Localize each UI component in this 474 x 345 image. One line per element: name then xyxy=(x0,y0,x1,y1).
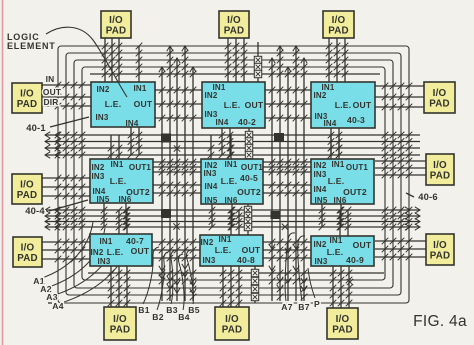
leader B2 xyxy=(157,252,168,310)
svg-text:L.E.: L.E. xyxy=(215,245,232,255)
svg-text:L.E.: L.E. xyxy=(327,247,344,257)
svg-text:OUT1: OUT1 xyxy=(129,163,151,172)
svg-text:OUT: OUT xyxy=(353,100,372,110)
svg-text:OUT1: OUT1 xyxy=(346,163,368,172)
svg-text:L.E.: L.E. xyxy=(221,176,238,186)
interconnect ticks channel2 verticals xyxy=(101,207,352,231)
wire stems left L3 xyxy=(42,242,91,259)
label 40-1 xyxy=(26,122,46,133)
svg-text:IN6: IN6 xyxy=(118,195,131,204)
io pad top 2 xyxy=(219,11,249,38)
svg-text:40-9: 40-9 xyxy=(346,255,364,265)
label FIG. 4a xyxy=(413,313,467,330)
wire stems T2 xyxy=(228,38,244,82)
wire horizontal channel 1 line 2 xyxy=(45,138,420,144)
wire stubs block2 bottom xyxy=(222,128,230,155)
wire stems right R1 xyxy=(375,86,426,107)
svg-text:IN5: IN5 xyxy=(314,196,327,205)
io pad right 2 xyxy=(426,154,454,185)
wire stubs block8 top xyxy=(231,210,239,235)
label A4 xyxy=(52,301,63,311)
wire vertical channel B3 xyxy=(285,67,291,301)
switch boxes ch1 column xyxy=(245,131,252,158)
svg-text:IN: IN xyxy=(46,74,55,84)
wire row2 pins gap1 xyxy=(153,162,201,193)
wire horizontal channel 2 line 4 xyxy=(45,224,420,230)
wire top channel inner xyxy=(90,73,380,75)
io pad right 1 xyxy=(424,82,455,113)
wire row2 pins gap2 xyxy=(263,162,311,193)
interconnect ticks right channel xyxy=(382,83,413,261)
label 40-6 xyxy=(418,191,438,202)
label DIR xyxy=(43,97,58,107)
svg-text:L.E.: L.E. xyxy=(224,100,241,110)
wire stubs block6 bottom xyxy=(322,204,341,227)
svg-text:I/O: I/O xyxy=(336,314,350,325)
svg-text:B5: B5 xyxy=(188,305,199,315)
label OUT xyxy=(43,87,62,97)
svg-text:40-7: 40-7 xyxy=(126,236,144,246)
wire bundle B output arrows xyxy=(159,264,196,294)
svg-text:L.E.: L.E. xyxy=(328,176,345,186)
svg-text:IN2: IN2 xyxy=(313,91,326,100)
svg-text:OUT: OUT xyxy=(134,99,153,109)
label P xyxy=(314,299,320,309)
wire vertical channel A4 xyxy=(182,46,188,301)
wire vertical channel B4 xyxy=(293,46,299,301)
svg-text:IN4: IN4 xyxy=(215,118,228,127)
wire vertical channel A3 xyxy=(174,58,180,301)
svg-text:IN5: IN5 xyxy=(96,195,109,204)
wire stubs block6 top xyxy=(331,135,339,159)
wire stubs block1 bottom xyxy=(131,127,139,155)
wire row1 pins gap2 xyxy=(265,90,311,118)
label 40-4 xyxy=(25,205,45,216)
logic element U1 (40-1) xyxy=(91,82,155,128)
wire stubs block7 top xyxy=(119,210,127,234)
svg-text:L.E.: L.E. xyxy=(107,247,124,257)
switch boxes bottom column xyxy=(251,269,258,300)
svg-text:OUT: OUT xyxy=(43,87,62,97)
svg-text:IN1: IN1 xyxy=(331,160,344,169)
io pad left 3 xyxy=(13,237,42,267)
interconnect ticks mid channel 1 xyxy=(159,87,197,262)
wire stems left L1 xyxy=(42,85,91,106)
svg-text:IN2: IN2 xyxy=(200,238,213,247)
svg-text:40-8: 40-8 xyxy=(237,255,255,265)
svg-text:40-6: 40-6 xyxy=(418,191,438,202)
svg-text:PAD: PAD xyxy=(430,251,451,262)
label A2 xyxy=(40,284,51,294)
label B5 xyxy=(188,305,199,315)
wire xbox column top xyxy=(257,42,259,82)
svg-text:OUT2: OUT2 xyxy=(237,187,261,197)
svg-text:PAD: PAD xyxy=(17,253,38,264)
node x-mark 3 xyxy=(282,224,288,230)
logic element U9 (40-9) xyxy=(311,236,374,266)
wire vertical channel B2 xyxy=(277,46,283,301)
wire stubs block3 bottom xyxy=(331,128,339,155)
wire row1 pins gap1 xyxy=(155,90,202,118)
switch boxes top column xyxy=(254,56,261,77)
wire stems bottom B2 xyxy=(223,266,239,308)
svg-text:I/O: I/O xyxy=(227,15,241,26)
svg-text:IN3: IN3 xyxy=(314,257,327,266)
node x-mark 2 xyxy=(173,223,179,229)
wire vertical channel A1 xyxy=(159,67,165,301)
svg-text:B2: B2 xyxy=(152,312,163,322)
svg-text:DIR: DIR xyxy=(43,97,58,107)
svg-text:IN4: IN4 xyxy=(323,119,336,128)
leader 40-4 xyxy=(49,200,88,211)
svg-text:I/O: I/O xyxy=(20,180,34,191)
svg-text:IN3: IN3 xyxy=(91,172,104,181)
svg-text:PAD: PAD xyxy=(430,171,451,182)
wire routing ring 2 xyxy=(66,53,401,295)
svg-text:OUT: OUT xyxy=(131,246,150,256)
svg-text:IN1: IN1 xyxy=(218,235,231,244)
svg-text:L.E.: L.E. xyxy=(105,99,122,109)
leader B4 xyxy=(179,254,185,310)
leader A7 xyxy=(285,233,295,301)
svg-text:I/O: I/O xyxy=(433,240,447,251)
svg-text:I/O: I/O xyxy=(113,314,127,325)
label B4 xyxy=(178,312,189,322)
wire row3 pins gap2 xyxy=(263,242,311,258)
io pad bottom 2 xyxy=(215,307,249,340)
svg-text:IN4: IN4 xyxy=(313,185,326,194)
svg-text:L.E.: L.E. xyxy=(110,176,127,186)
leader B1 xyxy=(143,247,159,304)
svg-text:OUT: OUT xyxy=(353,240,372,250)
wire vertical channel A2 xyxy=(167,46,173,301)
svg-text:PAD: PAD xyxy=(17,190,38,201)
wire bottom channel outer xyxy=(48,302,52,304)
svg-text:B1: B1 xyxy=(138,305,149,315)
wire horizontal channel 2 line 1 xyxy=(45,207,420,213)
wire routing ring 4 xyxy=(82,67,385,280)
interconnect ticks left channel xyxy=(55,82,86,263)
wire stubs block4 top xyxy=(111,135,119,159)
label A3 xyxy=(46,292,57,302)
svg-text:PAD: PAD xyxy=(17,99,38,110)
leader A2 xyxy=(49,228,105,287)
svg-text:IN3: IN3 xyxy=(202,256,215,265)
io pad right 3 xyxy=(426,234,454,265)
svg-text:40-4: 40-4 xyxy=(25,205,45,216)
interconnect ticks bottom channel xyxy=(108,270,353,307)
switch boxes ch2 column xyxy=(244,206,251,230)
io pad top 3 xyxy=(323,11,354,38)
wire xbox column ch2 xyxy=(247,204,249,235)
wire vertical channel B5 xyxy=(301,58,307,301)
label IN xyxy=(46,74,55,84)
svg-text:IN6: IN6 xyxy=(224,196,237,205)
svg-text:IN1: IN1 xyxy=(329,236,342,245)
wire stems right R3 xyxy=(375,241,426,257)
svg-text:PAD: PAD xyxy=(328,26,349,37)
node junction square 3 xyxy=(161,209,171,218)
svg-text:PAD: PAD xyxy=(110,325,131,336)
leader A4 xyxy=(61,240,129,303)
svg-text:IN1: IN1 xyxy=(110,160,123,169)
svg-text:ELEMENT: ELEMENT xyxy=(7,41,56,51)
logic element U2 (40-2) xyxy=(202,82,265,128)
svg-text:PAD: PAD xyxy=(332,325,353,336)
svg-text:I/O: I/O xyxy=(109,15,123,26)
leader B5 xyxy=(187,250,194,304)
svg-text:A7: A7 xyxy=(281,302,292,312)
wire stubs block5 bottom xyxy=(212,204,232,227)
wire stems bottom B3 xyxy=(333,266,349,308)
wire bottom channel inner xyxy=(88,272,384,274)
wire horizontal channel 1 line 4 xyxy=(45,152,420,158)
svg-text:IN1: IN1 xyxy=(224,160,237,169)
io pad top 1 xyxy=(101,11,131,38)
wire stems bottom B1 xyxy=(111,266,127,308)
svg-text:L.E.: L.E. xyxy=(335,100,352,110)
svg-text:PAD: PAD xyxy=(224,26,245,37)
svg-text:PAD: PAD xyxy=(106,26,127,37)
svg-text:B3: B3 xyxy=(166,305,177,315)
node x-mark 4 xyxy=(347,279,353,285)
interconnect ticks channel1 verticals xyxy=(108,132,343,159)
svg-text:IN2: IN2 xyxy=(313,240,326,249)
io pad left 2 xyxy=(12,174,42,204)
svg-text:40-1: 40-1 xyxy=(26,122,46,133)
svg-text:IN4: IN4 xyxy=(125,119,138,128)
logic element U5 (40-5) xyxy=(201,159,263,205)
wire routing ring 1 xyxy=(58,46,409,303)
svg-text:40-5: 40-5 xyxy=(240,173,258,183)
leader 40-6 xyxy=(406,193,414,197)
node junction square 2 xyxy=(274,133,284,142)
svg-text:IN2: IN2 xyxy=(313,161,326,170)
io pad bottom 3 xyxy=(327,308,358,339)
svg-text:OUT: OUT xyxy=(242,245,261,255)
wire vertical channel A5 xyxy=(190,67,196,301)
io pad left 1 xyxy=(12,83,42,113)
wire stubs block4 bottom xyxy=(104,203,126,227)
label A7 xyxy=(281,302,292,312)
svg-text:IN3: IN3 xyxy=(203,169,216,178)
svg-text:I/O: I/O xyxy=(433,88,447,99)
wire stems right R2 xyxy=(375,161,426,175)
wire bundle A output arrows xyxy=(269,244,307,291)
svg-text:OUT2: OUT2 xyxy=(343,187,367,197)
svg-text:40-3: 40-3 xyxy=(347,115,365,125)
svg-text:I/O: I/O xyxy=(20,89,34,100)
svg-text:I/O: I/O xyxy=(21,243,35,254)
logic element U8 (40-8) xyxy=(200,235,263,266)
svg-text:IN1: IN1 xyxy=(133,84,146,93)
svg-text:IN2: IN2 xyxy=(90,248,103,257)
svg-text:P: P xyxy=(314,299,320,309)
label A1 xyxy=(33,276,44,286)
leader A3 xyxy=(55,234,117,295)
wire stems T1 xyxy=(105,38,119,82)
svg-text:A4: A4 xyxy=(52,301,63,311)
interconnect ticks mid channel 2 xyxy=(269,87,308,262)
svg-text:IN4: IN4 xyxy=(204,182,217,191)
io pad bottom 1 xyxy=(104,307,136,340)
interconnect ticks top channel xyxy=(102,43,349,78)
svg-text:I/O: I/O xyxy=(332,15,346,26)
wire horizontal channel 1 line 1 xyxy=(45,132,420,138)
svg-text:I/O: I/O xyxy=(225,314,239,325)
wire horizontal channel 2 line 2 xyxy=(45,213,420,219)
svg-text:OUT1: OUT1 xyxy=(241,163,263,172)
wire stubs block5 top xyxy=(211,135,231,159)
wire routing ring 3 xyxy=(74,60,393,288)
label LOGIC ELEMENT xyxy=(7,32,56,51)
node x-mark 1 xyxy=(174,145,180,151)
svg-text:IN3: IN3 xyxy=(97,257,110,266)
logic element U4 (40-4) xyxy=(90,159,153,204)
wire row3 pins gap1 xyxy=(152,242,200,258)
leader B3 xyxy=(171,250,176,304)
svg-text:IN6: IN6 xyxy=(333,196,346,205)
label B2 xyxy=(152,312,163,322)
label B3 xyxy=(166,305,177,315)
label B7 xyxy=(298,302,309,312)
svg-text:IN2: IN2 xyxy=(91,163,104,172)
logic element U7 (40-7) xyxy=(90,234,152,266)
leader P xyxy=(308,268,315,298)
svg-text:OUT: OUT xyxy=(245,100,264,110)
svg-text:IN5: IN5 xyxy=(204,196,217,205)
wire stubs block9 top xyxy=(340,210,348,236)
leader B7 xyxy=(298,236,305,301)
label B1 xyxy=(138,305,149,315)
svg-text:B7: B7 xyxy=(298,302,309,312)
svg-text:IN1: IN1 xyxy=(99,237,112,246)
node junction square 1 xyxy=(161,134,171,143)
logic element U6 (40-6) xyxy=(311,159,374,205)
node junction square 4 xyxy=(271,211,280,219)
scan artifact line xyxy=(2,0,4,345)
leader A1 xyxy=(42,222,93,278)
wire horizontal channel 1 line 3 xyxy=(45,145,420,151)
svg-text:PAD: PAD xyxy=(429,99,450,110)
leader LOGIC ELEMENT xyxy=(46,27,127,97)
wire horizontal channel 2 line 3 xyxy=(45,218,420,224)
wire vertical channel B1 xyxy=(269,58,275,301)
leader 40-1 xyxy=(50,117,89,127)
svg-text:PAD: PAD xyxy=(222,325,243,336)
logic element U3 (40-3) xyxy=(311,82,375,128)
svg-text:IN2: IN2 xyxy=(96,85,109,94)
wire stub block1 IN1 up xyxy=(138,46,140,82)
svg-text:40-2: 40-2 xyxy=(238,117,256,127)
svg-text:IN3: IN3 xyxy=(95,113,108,122)
wire xbox column bottom xyxy=(254,266,256,303)
svg-text:I/O: I/O xyxy=(433,160,447,171)
wire xbox column ch1 xyxy=(248,128,250,159)
svg-text:IN3: IN3 xyxy=(313,170,326,179)
wire stems left L2 xyxy=(42,178,91,196)
svg-text:IN2: IN2 xyxy=(204,91,217,100)
wire stems T3 xyxy=(329,38,345,82)
svg-text:FIG. 4a: FIG. 4a xyxy=(413,313,467,330)
